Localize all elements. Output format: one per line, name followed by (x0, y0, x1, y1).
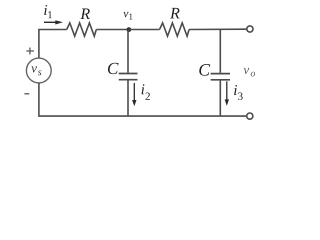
+ polarity (26, 48, 34, 55)
resistor R2 (160, 23, 190, 36)
current arrow i2 (133, 83, 135, 101)
node v1 (126, 27, 131, 32)
wire (96, 29, 129, 31)
wire (127, 30, 129, 73)
wire (189, 28, 246, 30)
terminal (bottom output) (247, 113, 253, 119)
voltage source vs (26, 58, 51, 83)
wire (219, 30, 221, 73)
terminal (top output) (247, 26, 253, 32)
wire (39, 83, 247, 116)
wire (39, 30, 67, 59)
- polarity (24, 93, 29, 95)
current arrow i1 (44, 21, 57, 23)
wire (129, 29, 160, 31)
capacitor C1 (119, 74, 138, 80)
label vo (244, 68, 250, 74)
resistor R1 (67, 23, 97, 36)
capacitor C2 (211, 74, 230, 80)
wire (127, 81, 129, 117)
current arrow i3 (226, 81, 228, 100)
wire (219, 81, 221, 117)
